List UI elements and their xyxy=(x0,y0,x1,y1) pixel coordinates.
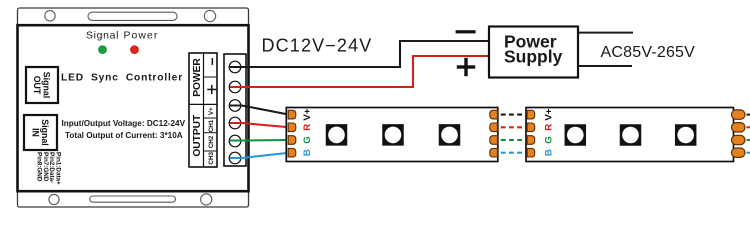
connector J2: Signal IN port xyxy=(24,115,57,150)
wire W6: CH1/R wire (red) xyxy=(230,123,289,127)
wire W5: V+ wire controller to strip (black) xyxy=(230,106,289,115)
svg-text:IN: IN xyxy=(31,128,41,137)
controller U1: LED Sync Controller chassis xyxy=(18,8,249,207)
pin label Pin1 Data+ / Pin2 Data- / Pin7 GND / Pin8 GND (rotated) xyxy=(36,152,62,185)
terminal screw 1 (minus) xyxy=(229,61,241,73)
svg-text:B: B xyxy=(302,149,313,156)
svg-text:CH3: CH3 xyxy=(208,152,215,165)
LED D1 signal indicator (green) xyxy=(98,45,107,54)
svg-text:G: G xyxy=(543,136,554,143)
polarity symbol minus xyxy=(456,30,476,33)
pin label plus xyxy=(207,85,216,94)
terminal screw 6 (CH3) xyxy=(229,152,241,164)
wire W3: AC line upper xyxy=(578,32,633,34)
svg-text:CH2: CH2 xyxy=(208,135,215,148)
svg-text:V+: V+ xyxy=(208,107,215,115)
jumper dashed wire G (green) xyxy=(501,139,525,141)
svg-text:B: B xyxy=(543,149,554,156)
jumper dashed wire R (red) xyxy=(501,126,525,128)
power supply PS1 xyxy=(489,27,578,78)
mounting hole bottom-left xyxy=(49,194,59,204)
wire W7: CH2/G wire (green) xyxy=(230,139,289,142)
terminal screw 2 (plus) xyxy=(229,81,241,93)
svg-text:AC85V-265V: AC85V-265V xyxy=(601,44,696,61)
wire W1: minus wire controller to power supply (black) xyxy=(230,41,489,67)
svg-text:Power: Power xyxy=(124,30,159,41)
polarity symbol plus xyxy=(457,58,475,76)
stub dashed wire G (green) xyxy=(747,139,750,141)
terminal block TB1 xyxy=(224,54,246,166)
stub dashed wire B (blue) xyxy=(747,152,750,154)
LED D2 power indicator (red) xyxy=(130,45,139,54)
LED lamp 3 on strip 1 xyxy=(439,124,461,145)
strip 2 right connector tabs xyxy=(732,110,746,157)
svg-text:Supply: Supply xyxy=(504,47,563,67)
wire W8: CH3/B wire (blue) xyxy=(230,153,289,158)
controller main body xyxy=(18,25,249,191)
stub dashed wire V+ to next strip (black) xyxy=(747,114,750,116)
strip 1 body xyxy=(286,108,498,162)
svg-text:Signal: Signal xyxy=(40,119,50,145)
stub dashed wire R (red) xyxy=(747,126,750,128)
svg-text:V+: V+ xyxy=(302,108,313,120)
strip 2 body xyxy=(526,108,734,162)
LED strip LS1 xyxy=(286,108,498,162)
svg-text:POWER: POWER xyxy=(192,58,203,97)
mounting slot top xyxy=(88,12,177,20)
pin label minus xyxy=(212,58,214,65)
LED lamp 1 on strip 1 xyxy=(326,124,348,145)
svg-text:DC12V−24V: DC12V−24V xyxy=(262,36,373,56)
svg-text:LED Sync Controller: LED Sync Controller xyxy=(61,73,183,84)
svg-text:OUTPUT: OUTPUT xyxy=(192,114,203,157)
strip 1 left pads V+/R/G/B xyxy=(288,110,296,157)
LED lamp 2 on strip 1 xyxy=(382,124,404,145)
label Signal IN (rotated) xyxy=(31,119,51,145)
svg-text:R: R xyxy=(543,124,554,131)
mounting hole top-right xyxy=(204,10,215,21)
mounting hole top-left xyxy=(45,11,55,21)
terminal screw 3 (V+) xyxy=(229,100,241,112)
jumper dashed wire V+ strip1 to strip2 (black) xyxy=(501,114,525,116)
terminal label box xyxy=(189,53,217,167)
wire W4: AC line lower xyxy=(578,65,632,67)
LED lamp 3 on strip 2 xyxy=(675,124,697,146)
mounting hole bottom-right xyxy=(201,194,212,205)
LED lamp 1 on strip 2 xyxy=(565,124,587,146)
svg-text:Pin8:GND: Pin8:GND xyxy=(36,152,43,182)
svg-text:G: G xyxy=(302,136,313,143)
LED strip LS2 xyxy=(526,108,745,162)
svg-text:Input/Output Voltage: DC12-24V: Input/Output Voltage: DC12-24V xyxy=(62,119,186,128)
svg-text:Total Output of Current: 3*10A: Total Output of Current: 3*10A xyxy=(65,131,183,140)
controller outer flange plate xyxy=(18,8,249,207)
wire W2: plus wire controller to power supply (red) xyxy=(230,56,489,87)
svg-text:V+: V+ xyxy=(543,108,554,120)
svg-text:Signal: Signal xyxy=(86,30,119,41)
jumper dashed wire B (blue) xyxy=(501,152,525,154)
svg-text:OUT: OUT xyxy=(32,76,42,95)
label Signal OUT (rotated) xyxy=(32,72,52,98)
LED lamp 2 on strip 2 xyxy=(620,124,642,146)
terminal screw 4 (CH1) xyxy=(229,117,241,129)
strip 2 left pads xyxy=(527,110,535,157)
mounting slot bottom xyxy=(90,196,176,202)
svg-text:R: R xyxy=(302,124,313,131)
svg-text:Signal: Signal xyxy=(42,72,52,98)
strip 1 right pads xyxy=(490,110,498,157)
svg-text:CH1: CH1 xyxy=(208,119,215,132)
terminal screw 5 (CH2) xyxy=(229,135,241,147)
connector J1: Signal OUT port xyxy=(26,67,58,103)
